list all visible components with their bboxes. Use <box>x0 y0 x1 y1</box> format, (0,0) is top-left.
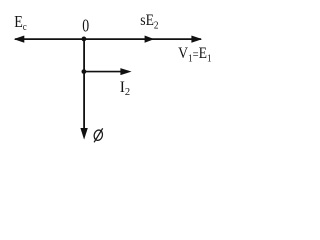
svg-text:I2: I2 <box>120 79 130 98</box>
svg-text:0: 0 <box>82 17 89 36</box>
svg-text:Ec: Ec <box>14 13 27 33</box>
svg-text:V1=E1: V1=E1 <box>178 45 212 64</box>
svg-text:sE2: sE2 <box>140 12 158 31</box>
